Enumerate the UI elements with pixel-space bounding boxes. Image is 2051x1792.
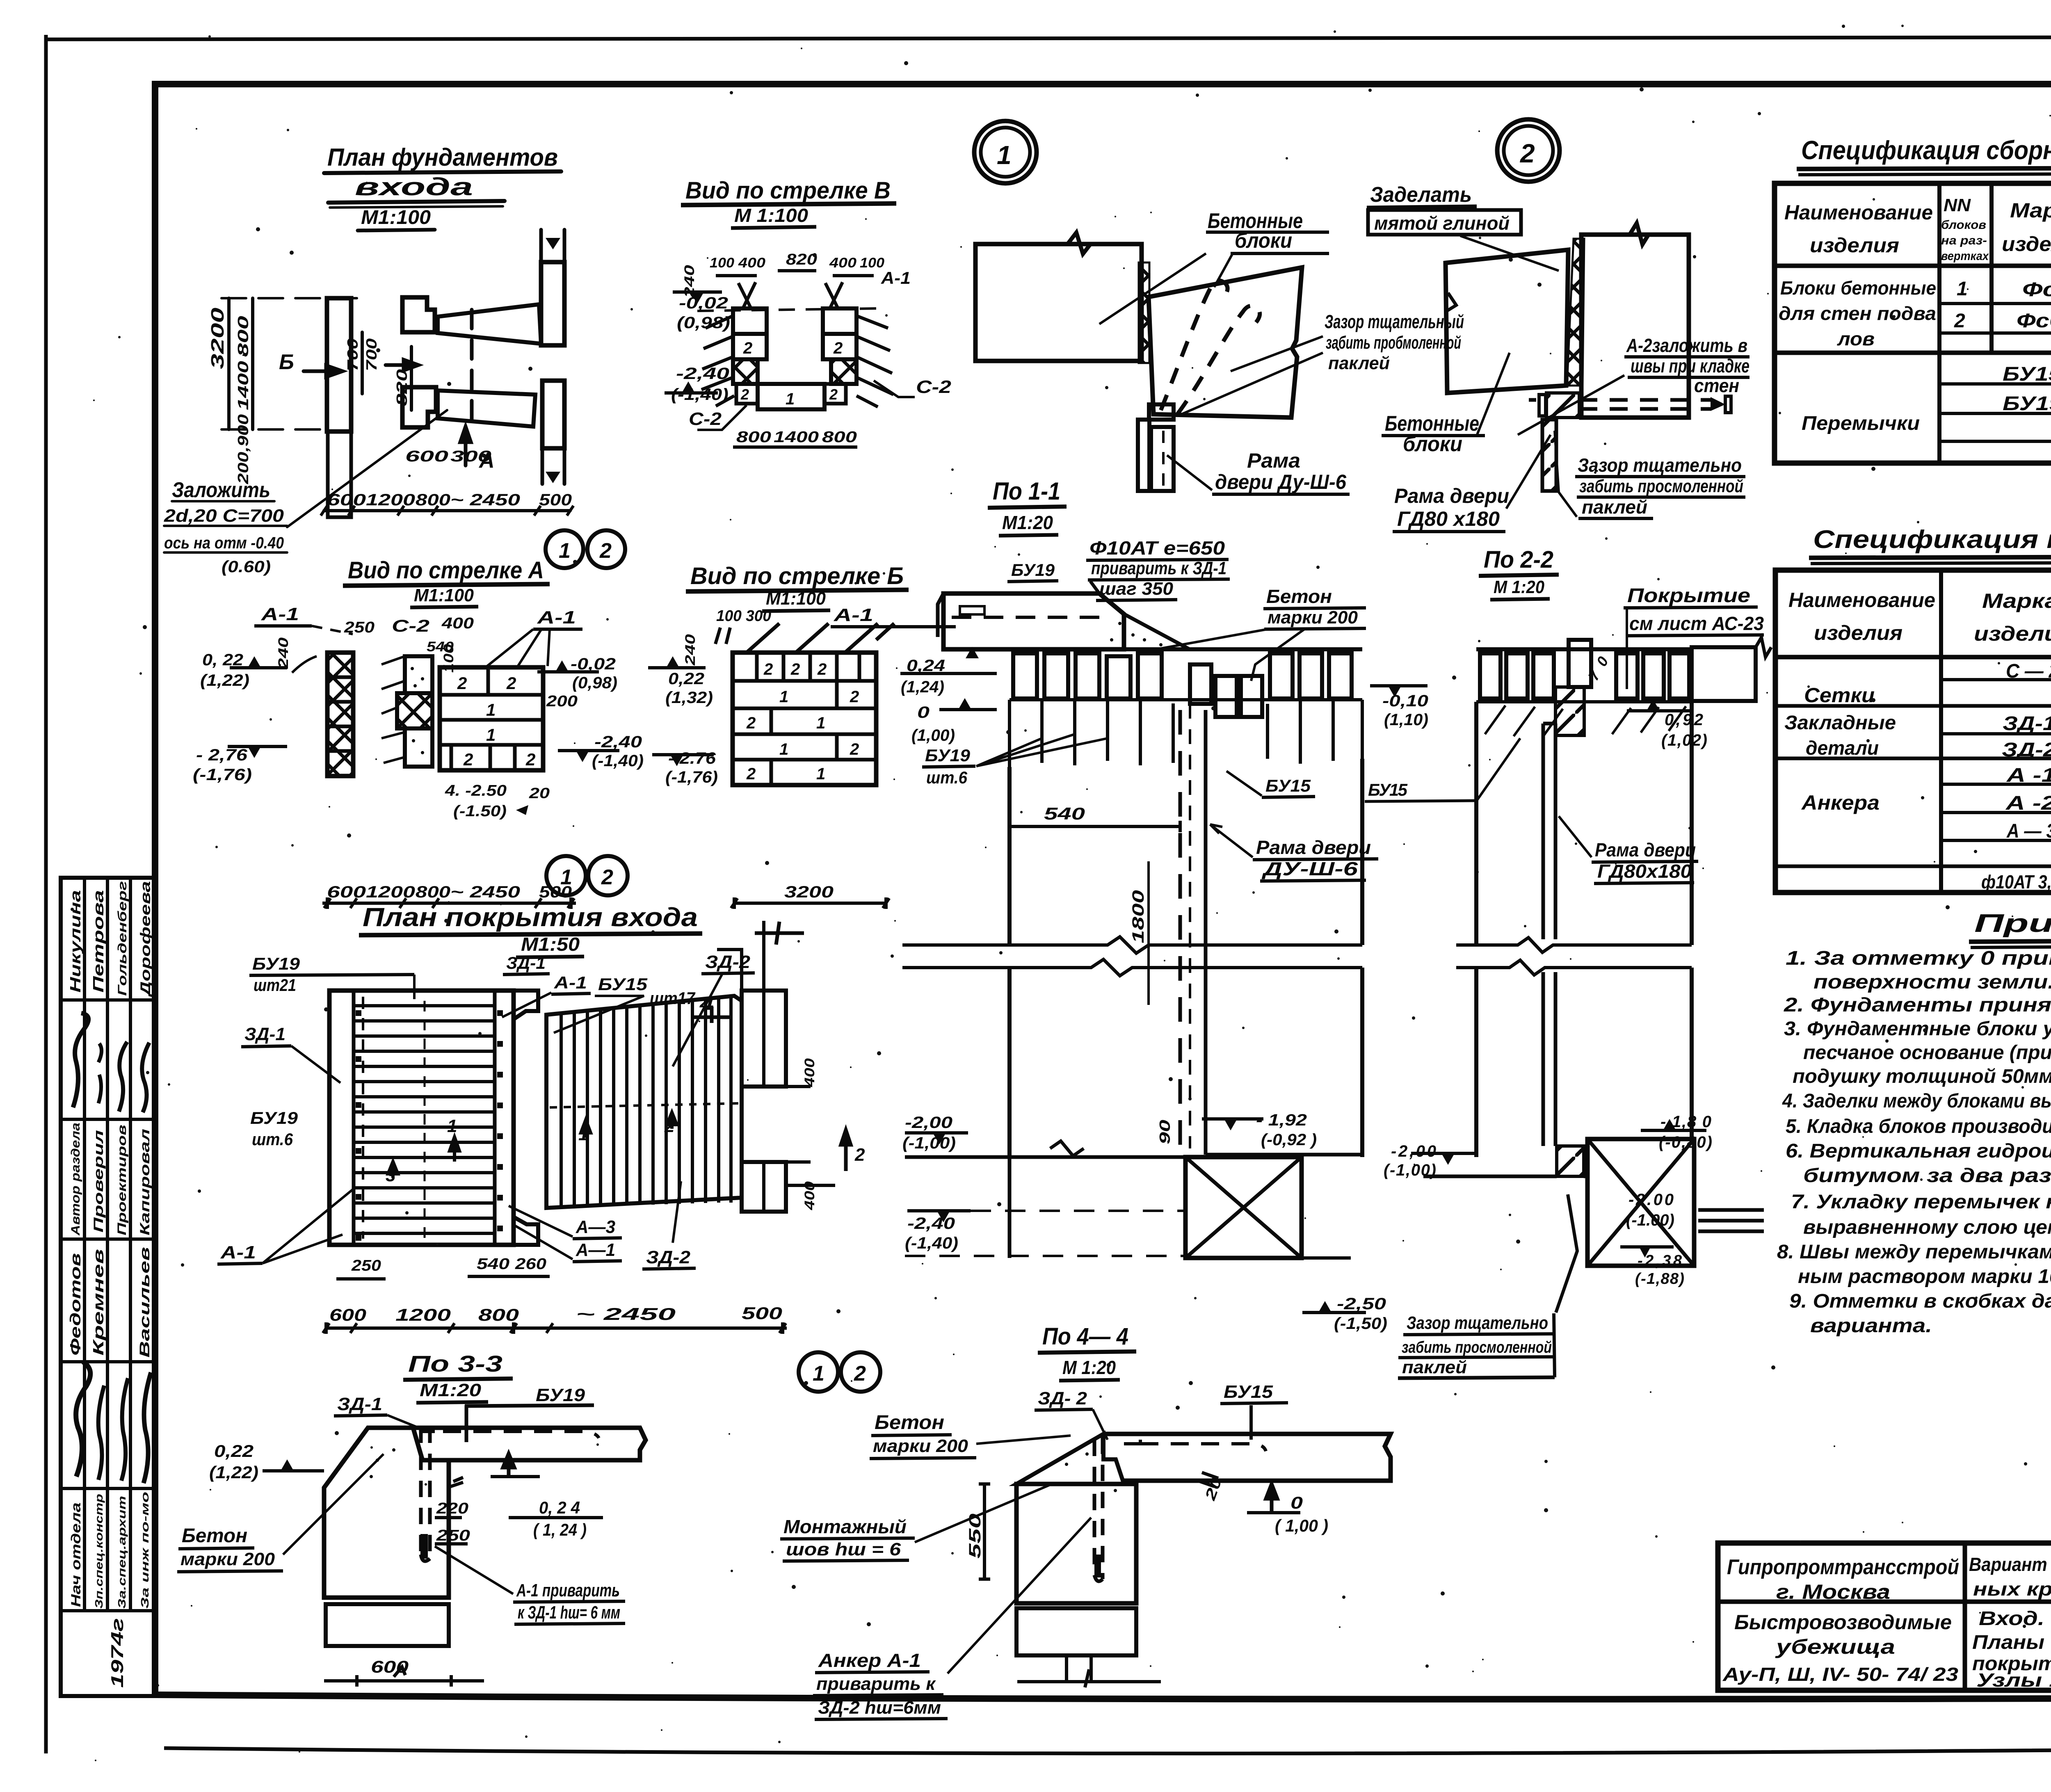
svg-text:~ 2450: ~ 2450 — [450, 491, 520, 509]
svg-text:-0,02: -0,02 — [571, 655, 616, 673]
svg-text:1200: 1200 — [366, 883, 415, 901]
svg-text:Дорофеева: Дорофеева — [138, 881, 153, 998]
svg-text:0,92: 0,92 — [1665, 711, 1703, 729]
bottom dims — [733, 445, 857, 449]
small dim marks — [448, 1477, 463, 1487]
main title block table — [1718, 1543, 2051, 1690]
svg-text:2: 2 — [763, 660, 773, 678]
svg-text:Зазор тщательно: Зазор тщательно — [1578, 454, 1742, 476]
svg-text:7. Укладку перемычек на ст: 7. Укладку перемычек на стены производит… — [1791, 1191, 2051, 1213]
svg-text:1800: 1800 — [1129, 890, 1147, 943]
svg-text:Бетон: Бетон — [1266, 586, 1332, 607]
svg-text:400: 400 — [441, 615, 474, 632]
wedge + block — [324, 1428, 449, 1598]
svg-text:За инж по-мо: За инж по-мо — [139, 1492, 151, 1609]
svg-text:0,22: 0,22 — [668, 670, 704, 688]
dashed pry-bar curves — [1161, 281, 1228, 410]
svg-text:(0,98): (0,98) — [677, 314, 730, 332]
svg-text:лов: лов — [1837, 328, 1875, 349]
svg-text:(0.60): (0.60) — [222, 558, 271, 576]
table 2 horizontals — [1775, 655, 2051, 660]
svg-text:- 1,8 0: - 1,8 0 — [1660, 1113, 1711, 1131]
svg-text:250: 250 — [436, 1527, 470, 1544]
elevation 0,22 — [248, 656, 261, 668]
stepped block top — [402, 297, 435, 332]
hatch joint strip — [1139, 263, 1149, 363]
svg-text:2: 2 — [829, 386, 838, 403]
svg-text:забить пробмоленной: забить пробмоленной — [1326, 333, 1461, 353]
svg-text:БУ19: БУ19 — [1011, 560, 1055, 580]
svg-text:Петрова: Петрова — [90, 890, 107, 993]
dims 220 250 — [435, 1518, 468, 1544]
svg-text:2: 2 — [463, 750, 473, 769]
svg-text:-2,00: -2,00 — [905, 1114, 952, 1132]
svg-text:1: 1 — [447, 1116, 457, 1136]
left pillar stack — [733, 308, 767, 334]
svg-text:Рама двери: Рама двери — [1394, 484, 1509, 507]
elevation -1,92 — [1224, 1119, 1237, 1130]
svg-text:ДУ-Ш-6: ДУ-Ш-6 — [1261, 858, 1358, 879]
elevation -2,40 right — [576, 751, 589, 762]
svg-text:5. Кладка блоков производится: 5. Кладка блоков производится на раствор… — [1786, 1116, 2051, 1137]
svg-text:(1,00): (1,00) — [911, 726, 955, 744]
svg-text:200,900: 200,900 — [235, 414, 251, 484]
svg-text:г. Москва: г. Москва — [1776, 1580, 1890, 1603]
svg-text:(-1.50): (-1.50) — [453, 803, 507, 820]
svg-text:- 2,76: - 2,76 — [196, 746, 248, 764]
svg-text:800: 800 — [416, 491, 450, 509]
svg-text:А-1: А-1 — [881, 268, 911, 288]
main block grid A — [440, 667, 543, 770]
svg-text:Фс6: Фс6 — [2022, 279, 2051, 301]
svg-text:(1,22): (1,22) — [200, 671, 249, 689]
svg-text:забить просмоленной: забить просмоленной — [1579, 476, 1743, 496]
svg-text:Зазор тщательно: Зазор тщательно — [1407, 1313, 1548, 1333]
stepped block bottom — [402, 387, 436, 427]
block — [1016, 1484, 1136, 1603]
svg-text:2d,20 C=700: 2d,20 C=700 — [164, 506, 284, 526]
outer thin page border top — [46, 37, 2051, 39]
svg-text:Ф10АТ е=650: Ф10АТ е=650 — [1089, 537, 1225, 559]
svg-text:600: 600 — [405, 448, 448, 465]
svg-text:100: 100 — [710, 255, 734, 271]
svg-text:540: 540 — [1044, 804, 1085, 823]
svg-text:Покрытие: Покрытие — [1627, 585, 1750, 607]
svg-text:М 1:20: М 1:20 — [1494, 577, 1544, 597]
elevation -2,00 left — [933, 1133, 946, 1144]
svg-text:Наименование: Наименование — [1784, 201, 1933, 224]
svg-text:вертках: вертках — [1941, 249, 1989, 263]
wedge concrete right of slab — [1124, 614, 1190, 649]
svg-text:(-1.00): (-1.00) — [1626, 1211, 1674, 1229]
svg-text:2: 2 — [601, 865, 613, 889]
left hatched wall — [327, 653, 353, 776]
dim chain 3200 — [227, 298, 231, 429]
svg-text:2: 2 — [850, 688, 859, 706]
svg-text:двери Ду-Ш-6: двери Ду-Ш-6 — [1215, 470, 1347, 493]
tilted concrete block — [1149, 267, 1302, 418]
svg-text:250: 250 — [344, 619, 375, 636]
svg-text:Закладные: Закладные — [1784, 712, 1896, 734]
svg-text:220: 220 — [436, 1500, 468, 1517]
svg-text:(-0,92 ): (-0,92 ) — [1261, 1131, 1317, 1149]
outer thin page border left — [44, 35, 48, 1753]
svg-text:4. Заделки между блоками выпол: 4. Заделки между блоками выполняются из … — [1782, 1090, 2051, 1112]
elevation -2,00 left po2-2 — [1441, 1153, 1455, 1165]
right columns — [742, 991, 786, 1087]
svg-text:БУ19: БУ19 — [536, 1385, 585, 1405]
svg-text:Никулина: Никулина — [67, 890, 84, 993]
svg-text:План фундаментов: План фундаментов — [327, 144, 558, 171]
svg-text:(1,22): (1,22) — [209, 1463, 258, 1482]
svg-text:подушку толщиной 50мм при гл: подушку толщиной 50мм при глинистых грун… — [1793, 1066, 2051, 1087]
svg-text:А -1: А -1 — [2006, 765, 2051, 786]
lintel beam — [413, 1428, 646, 1460]
bottom 600 dim — [324, 1667, 484, 1687]
svg-text:2: 2 — [790, 660, 800, 678]
svg-text:М1:100: М1:100 — [361, 207, 431, 228]
svg-text:1: 1 — [816, 765, 825, 783]
svg-text:Вход.: Вход. — [1979, 1608, 2044, 1630]
svg-text:- 1,92: - 1,92 — [1256, 1111, 1307, 1129]
svg-text:Перемычки: Перемычки — [1802, 413, 1920, 434]
svg-text:ЗД-1: ЗД-1 — [2003, 713, 2051, 735]
svg-text:3200: 3200 — [784, 883, 834, 901]
svg-text:1: 1 — [997, 140, 1012, 170]
svg-text:С-2: С-2 — [689, 409, 722, 429]
svg-text:Фс6-8: Фс6-8 — [2017, 310, 2051, 332]
svg-text:(-1,00): (-1,00) — [902, 1134, 956, 1152]
svg-text:Рама: Рама — [1247, 449, 1300, 472]
svg-text:1: 1 — [486, 700, 496, 719]
svg-text:приварить к ЗД-1: приварить к ЗД-1 — [1091, 558, 1226, 578]
svg-text:1974г: 1974г — [107, 1618, 127, 1688]
stamp verticals — [83, 878, 86, 1611]
svg-text:А—3: А—3 — [576, 1217, 615, 1237]
svg-text:Федотов: Федотов — [67, 1253, 84, 1356]
svg-text:А — 3: А — 3 — [2006, 820, 2051, 842]
svg-text:битумом за два раза.: битумом за два раза. — [1803, 1165, 2051, 1187]
main block grid B — [733, 653, 876, 785]
svg-text:1. За отметку 0 принята: 1. За отметку 0 принята условно отметка — [1786, 947, 2051, 969]
svg-text:400: 400 — [802, 1058, 818, 1087]
svg-text:Анкер А-1: Анкер А-1 — [818, 1650, 921, 1671]
svg-text:800: 800 — [235, 316, 251, 357]
svg-text:(-1,50): (-1,50) — [1334, 1315, 1387, 1333]
svg-text:ЗД-1: ЗД-1 — [337, 1394, 382, 1414]
svg-text:(1,02): (1,02) — [1661, 731, 1707, 749]
svg-text:(-1,76): (-1,76) — [665, 768, 718, 786]
svg-text:200: 200 — [546, 693, 578, 710]
table 2 verticals — [1939, 570, 1943, 893]
node circles 1 2 — [546, 530, 583, 568]
svg-text:А-1: А-1 — [537, 607, 576, 628]
svg-text:0: 0 — [917, 703, 930, 721]
svg-text:1: 1 — [813, 1362, 825, 1386]
svg-text:ЗД-2 hш=6мм: ЗД-2 hш=6мм — [818, 1698, 941, 1718]
svg-text:Проверил: Проверил — [91, 1130, 106, 1233]
elevation 0,24 — [503, 1454, 514, 1477]
svg-text:2: 2 — [743, 339, 752, 357]
550 dim — [983, 1484, 986, 1579]
planks horizontal lines — [354, 1006, 495, 1233]
svg-text:А-1: А-1 — [220, 1242, 256, 1262]
bottom beam — [758, 384, 825, 409]
stamp band lines — [61, 998, 155, 1002]
svg-text:Вид по стрелке А: Вид по стрелке А — [348, 557, 544, 584]
svg-text:(-1,40): (-1,40) — [592, 752, 644, 770]
svg-text:(-1,40): (-1,40) — [671, 386, 729, 404]
svg-text:Узлы 1,2: Узлы 1,2 — [1976, 1669, 2051, 1691]
svg-text:~ 2450: ~ 2450 — [576, 1304, 676, 1324]
svg-text:Быстровозводимые: Быстровозводимые — [1734, 1611, 1952, 1634]
svg-text:ЗД-2: ЗД-2 — [646, 1247, 691, 1267]
X foundation box — [1185, 1157, 1302, 1258]
svg-text:А-1: А-1 — [554, 973, 587, 992]
X foundation box po2-2 — [1587, 1139, 1694, 1266]
svg-text:А -2: А -2 — [2005, 792, 2051, 814]
bottom dims small — [336, 1277, 386, 1281]
svg-text:540: 540 — [477, 1256, 509, 1273]
elevation 0,22 left — [666, 656, 679, 668]
top slab with rebar — [943, 594, 1124, 649]
svg-text:1: 1 — [1957, 278, 1968, 300]
svg-text:ЗД-1: ЗД-1 — [244, 1024, 285, 1044]
door frame — [1149, 404, 1174, 420]
svg-text:БУ19: БУ19 — [2003, 393, 2051, 415]
elevation -2,76 — [248, 746, 261, 758]
svg-text:2: 2 — [1520, 139, 1535, 168]
svg-text:марки 200: марки 200 — [1268, 607, 1358, 628]
svg-text:изделия: изделия — [1974, 622, 2051, 645]
wedge left — [1016, 1434, 1124, 1484]
svg-text:Гипропромтрансстрой: Гипропромтрансстрой — [1727, 1555, 1959, 1579]
elevation -2,40 left — [937, 1211, 950, 1222]
anchor dots on plank edge — [356, 1013, 361, 1238]
svg-text:-2,50: -2,50 — [1337, 1295, 1386, 1313]
svg-text:С-2: С-2 — [916, 377, 952, 397]
svg-text:БУ19: БУ19 — [250, 1108, 298, 1128]
svg-text:260: 260 — [515, 1256, 546, 1273]
svg-text:400: 400 — [738, 255, 765, 271]
700 700 dims — [361, 332, 364, 394]
top-right squiggle line — [717, 921, 764, 991]
svg-text:0,22: 0,22 — [214, 1441, 254, 1461]
svg-text:А: А — [478, 449, 495, 473]
svg-text:М 1:100: М 1:100 — [734, 205, 808, 226]
svg-text:600: 600 — [371, 1657, 409, 1676]
bottom dim chain — [324, 509, 570, 512]
svg-text:Кремнев: Кремнев — [90, 1249, 107, 1356]
svg-text:По 1-1: По 1-1 — [993, 477, 1060, 505]
svg-text:БУ15: БУ15 — [1265, 776, 1311, 795]
svg-text:700: 700 — [344, 338, 361, 371]
svg-text:2: 2 — [740, 386, 749, 403]
svg-text:2. Фундаменты приняты по: 2. Фундаменты приняты по серий 1.116-1 в… — [1784, 994, 2051, 1016]
svg-text:1: 1 — [779, 740, 788, 758]
svg-text:варианта.: варианта. — [1810, 1315, 1932, 1337]
svg-text:(-1,76): (-1,76) — [193, 766, 252, 784]
svg-text:6. Вертикальная гидроизоляци: 6. Вертикальная гидроизоляция - обмазка … — [1786, 1140, 2051, 1162]
svg-text:М1:50: М1:50 — [521, 934, 580, 955]
svg-text:БУ19: БУ19 — [252, 954, 300, 973]
svg-text:поверхности земли.: поверхности земли. — [1813, 971, 2051, 993]
svg-text:1: 1 — [779, 688, 788, 706]
1800 dim rotated — [1147, 861, 1150, 1005]
leader from zazor label to joint — [1556, 1194, 1577, 1313]
svg-text:изделия: изделия — [1810, 234, 1899, 257]
svg-text:Примечания:: Примечания: — [1974, 909, 2051, 938]
bottom wall lines to X-box — [905, 1155, 1362, 1258]
anchor dashed — [1094, 1438, 1103, 1581]
svg-text:песчаное основание (при песча: песчаное основание (при песчаных грунтах… — [1803, 1042, 2051, 1064]
svg-text:см лист АС-23: см лист АС-23 — [1629, 613, 1764, 634]
svg-text:2: 2 — [854, 1145, 865, 1165]
svg-text:1: 1 — [786, 390, 795, 408]
svg-text:шаг 350: шаг 350 — [1099, 579, 1174, 599]
svg-text:А-1: А-1 — [834, 605, 873, 625]
svg-text:(1,32): (1,32) — [665, 689, 713, 707]
svg-text:(1,10): (1,10) — [1384, 711, 1428, 729]
svg-text:ЗД- 2: ЗД- 2 — [1038, 1388, 1087, 1408]
svg-text:Проектиров: Проектиров — [115, 1125, 129, 1235]
820 dim — [410, 347, 413, 410]
svg-text:План покрытия входа: План покрытия входа — [363, 902, 698, 932]
right pillar stack — [823, 308, 856, 334]
svg-text:изделия: изделия — [2002, 233, 2051, 256]
svg-text:приварить к: приварить к — [816, 1674, 936, 1694]
svg-text:БУ15: БУ15 — [1224, 1382, 1273, 1402]
svg-text:БУ15: БУ15 — [2003, 363, 2051, 385]
svg-text:Спецификация металлических и: Спецификация металлических изделий — [1813, 525, 2051, 554]
svg-text:изделия: изделия — [1814, 621, 1903, 644]
elevation -2,50 — [1318, 1301, 1332, 1313]
roof hatch above grid — [747, 623, 894, 653]
right elevation marks — [841, 1130, 851, 1171]
svg-text:Ау-П, Ш, IV- 50- 74/ 23: Ау-П, Ш, IV- 50- 74/ 23 — [1722, 1664, 1959, 1685]
svg-text:паклей: паклей — [1402, 1357, 1467, 1377]
540 dim — [1010, 825, 1180, 828]
svg-text:Бетон: Бетон — [875, 1412, 944, 1434]
side hatch wings — [701, 316, 734, 406]
break lines — [902, 937, 1362, 953]
svg-text:С — 2: С — 2 — [2006, 660, 2051, 682]
svg-text:Капировал: Капировал — [137, 1129, 152, 1235]
svg-text:ф10АТ 3,30п.м: ф10АТ 3,30п.м — [1981, 871, 2051, 893]
svg-text:(-1,40): (-1,40) — [905, 1234, 958, 1252]
node circles 1 2 below A — [546, 856, 586, 895]
svg-text:20: 20 — [529, 785, 550, 801]
elevation marks left — [691, 292, 704, 304]
left elevation 0,24 — [966, 647, 979, 658]
hatched post — [1542, 420, 1556, 491]
svg-text:90: 90 — [1156, 1120, 1173, 1144]
svg-text:0: 0 — [1290, 1493, 1303, 1512]
svg-text:-0,10: -0,10 — [1382, 692, 1428, 710]
svg-text:ГД80 х180: ГД80 х180 — [1397, 507, 1500, 530]
table 1 horizontals — [1775, 264, 2051, 268]
svg-text:8. Швы между перемычками тщ: 8. Швы между перемычками тщательно залит… — [1777, 1241, 2051, 1263]
wall verticals po2-2 — [1476, 701, 1692, 1157]
svg-text:Зазор тщательный: Зазор тщательный — [1325, 311, 1464, 332]
svg-text:(-1,88): (-1,88) — [1635, 1270, 1684, 1288]
svg-text:800: 800 — [736, 429, 771, 446]
svg-text:М1:20: М1:20 — [420, 1380, 482, 1400]
svg-text:ным раствором марки 100: ным раствором марки 100 — [1798, 1266, 2051, 1288]
svg-text:А—1: А—1 — [576, 1240, 615, 1260]
svg-text:Рама двери: Рама двери — [1256, 837, 1371, 858]
svg-text:600: 600 — [329, 1305, 366, 1324]
svg-text:500: 500 — [539, 491, 572, 509]
elevation -1,80 — [1663, 1119, 1676, 1130]
bottom main dim chain — [326, 1326, 787, 1330]
svg-text:500: 500 — [742, 1303, 782, 1323]
svg-text:М 1:20: М 1:20 — [1062, 1357, 1116, 1378]
hatched seam bottom — [1557, 1146, 1584, 1176]
svg-text:Рама двери: Рама двери — [1595, 839, 1696, 861]
elevation 0,22 — [281, 1459, 294, 1471]
svg-text:Бетон: Бетон — [182, 1525, 247, 1547]
right elevation -0,10 — [1388, 686, 1401, 697]
floor line — [1423, 1175, 1587, 1178]
svg-text:820: 820 — [786, 251, 817, 268]
svg-text:Монтажный: Монтажный — [783, 1516, 907, 1537]
wide top-right wall block — [1692, 647, 1756, 701]
lintel keys row po1-1 — [1010, 647, 1362, 651]
svg-text:мятой глиной: мятой глиной — [1374, 212, 1510, 234]
svg-text:(1,24): (1,24) — [901, 678, 944, 696]
svg-text:1: 1 — [486, 725, 496, 744]
svg-text:9. Отметки в скобках даны: 9. Отметки в скобках даны для полузаглуб… — [1789, 1290, 2051, 1312]
svg-text:А-2заложить в: А-2заложить в — [1626, 335, 1747, 356]
svg-text:400: 400 — [829, 255, 856, 271]
svg-text:800: 800 — [416, 883, 450, 901]
svg-text:-2,40: -2,40 — [676, 365, 729, 383]
left wall strip — [327, 298, 351, 431]
svg-text:По 3-3: По 3-3 — [408, 1351, 502, 1377]
svg-text:М1:20: М1:20 — [1002, 512, 1053, 533]
svg-text:( 1, 24 ): ( 1, 24 ) — [533, 1520, 587, 1539]
svg-text:0, 22: 0, 22 — [202, 651, 243, 669]
stamp signatures row2 — [76, 1362, 90, 1477]
svg-text:-2,40: -2,40 — [907, 1214, 955, 1233]
lintel keys row po2-2 — [1476, 647, 1692, 651]
svg-text:2: 2 — [746, 714, 756, 732]
svg-text:Вариант из звеньев водопропуск: Вариант из звеньев водопропуск- — [1969, 1554, 2051, 1575]
svg-text:Марка: Марка — [1982, 589, 2051, 612]
svg-text:Анкера: Анкера — [1801, 791, 1880, 814]
svg-text:Вид по стрелке Б: Вид по стрелке Б — [690, 563, 904, 589]
mid step edge — [514, 991, 538, 1245]
wall block right — [1581, 235, 1689, 418]
svg-text:ЗД-2: ЗД-2 — [705, 952, 751, 972]
svg-text:-2,40: -2,40 — [594, 733, 642, 751]
svg-text:3200: 3200 — [208, 307, 228, 369]
svg-text:Нач отдела: Нач отдела — [69, 1502, 83, 1607]
svg-text:По 4— 4: По 4— 4 — [1042, 1323, 1128, 1350]
svg-text:Марка: Марка — [2010, 199, 2051, 222]
svg-text:2: 2 — [599, 539, 612, 563]
svg-text:240: 240 — [682, 265, 697, 299]
svg-text:250: 250 — [351, 1257, 381, 1274]
door frame dashed — [1179, 710, 1182, 1155]
deck left: outer box — [329, 991, 514, 1245]
svg-text:700: 700 — [363, 338, 380, 371]
node circle 1 — [974, 121, 1037, 183]
svg-text:3. Фундаментные блоки уклады: 3. Фундаментные блоки укладываются на вы… — [1784, 1018, 2051, 1040]
svg-text:паклей: паклей — [1582, 496, 1647, 518]
bolt detail — [1546, 393, 1579, 418]
